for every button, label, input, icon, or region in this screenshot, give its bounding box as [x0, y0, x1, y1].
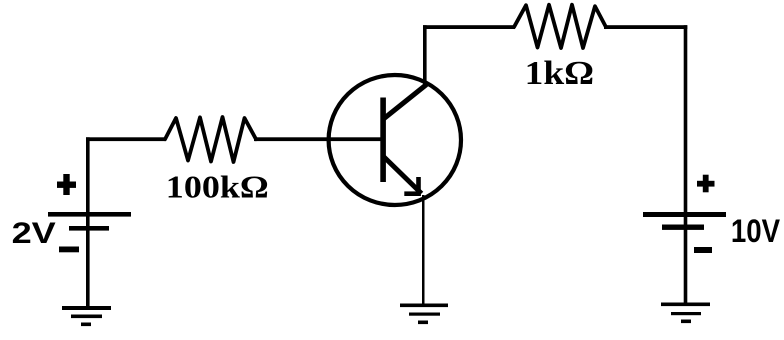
wire top horizontal left segment (collector node to R2): [423, 25, 515, 29]
ground left: [62, 306, 111, 326]
battery V2 minus sign: [694, 247, 712, 253]
resistor R1 100kΩ zigzag: [165, 117, 256, 162]
battery V1 minus sign: [59, 247, 79, 253]
wire base horizontal right segment (R1 to Q1 base): [254, 137, 383, 141]
transistor Q1 base bar: [380, 98, 386, 183]
wire emitter vertical to ground: [422, 195, 425, 304]
battery V1 bottom plate: [69, 226, 109, 231]
svg-text:1kΩ: 1kΩ: [525, 55, 594, 92]
wire top horizontal right segment (R2 to V2): [604, 25, 687, 29]
transistor Q1 circle: [329, 75, 461, 205]
battery V1 plus sign: [57, 182, 76, 188]
svg-text:2V: 2V: [12, 217, 56, 250]
wire right vertical (top wire down to battery V2): [684, 25, 688, 304]
battery V1 top plate: [48, 212, 131, 217]
wire base horizontal left segment (V1 to R1): [86, 137, 166, 141]
transistor Q1 emitter arrow barb vertical: [416, 177, 421, 194]
svg-text:10V: 10V: [731, 213, 781, 249]
battery V2 plus sign: [697, 181, 715, 187]
ground right: [661, 303, 710, 324]
resistor R2 1kΩ zigzag: [514, 5, 606, 48]
transistor Q1 collector lead diagonal: [384, 85, 427, 119]
wire collector vertical: [423, 25, 427, 85]
battery V2 top plate: [643, 212, 726, 217]
ground middle (emitter): [400, 304, 448, 325]
svg-text:100kΩ: 100kΩ: [166, 169, 269, 205]
transistor Q1 emitter lead diagonal: [384, 157, 422, 194]
transistor Q1 emitter arrow barb horizontal: [404, 191, 421, 196]
battery V2 bottom plate: [662, 225, 704, 230]
wire left vertical (base wire down to battery V1): [86, 137, 90, 307]
